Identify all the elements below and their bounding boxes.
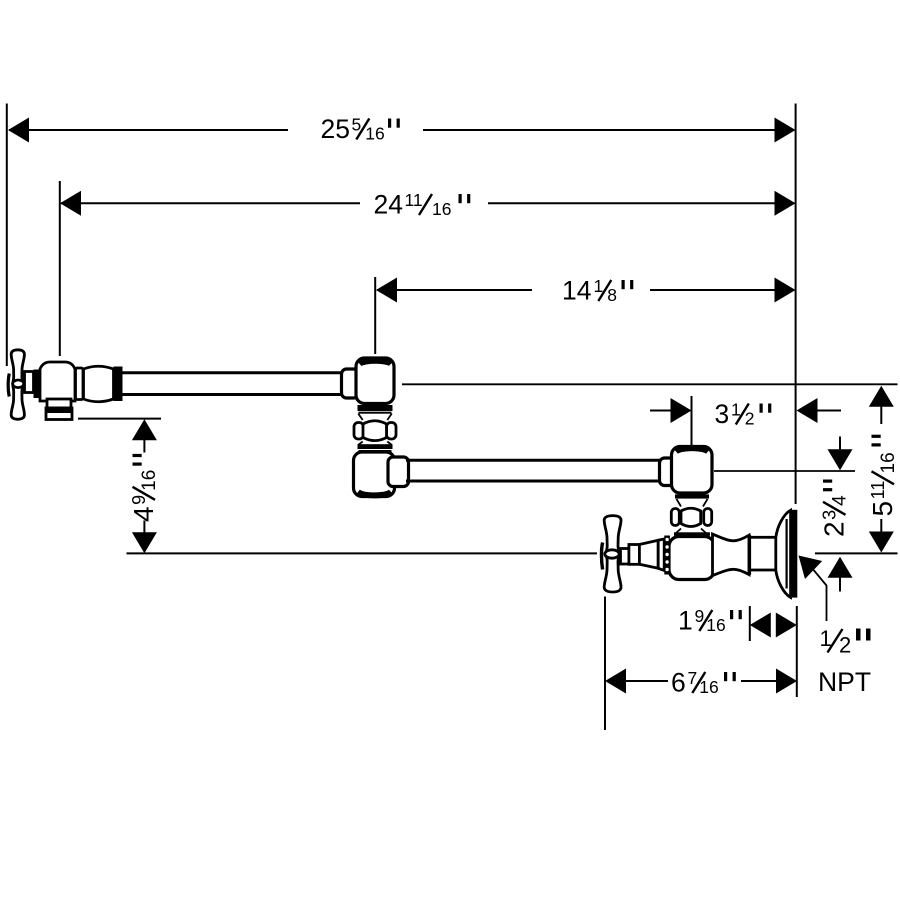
wall valve neck right — [713, 534, 750, 576]
wall flange plate — [791, 510, 797, 598]
D6 bottom arrow (points up) — [828, 557, 853, 578]
spout handle left arm edge — [8, 374, 9, 397]
D6 text 2-3/4" rotated — [819, 480, 851, 538]
spout bonnet bar (dark) — [34, 370, 40, 399]
dimension D1 right arrow — [775, 118, 796, 143]
middle joint hex nut left tab — [354, 423, 364, 440]
svg-text:1: 1 — [678, 606, 693, 636]
spout valve body — [40, 362, 75, 401]
svg-text:9: 9 — [695, 606, 705, 626]
right joint hex nut centre — [681, 508, 701, 526]
svg-text:16: 16 — [432, 199, 451, 219]
svg-text:5: 5 — [867, 501, 898, 517]
right joint ring band — [675, 494, 709, 498]
spout black collar band — [114, 367, 123, 402]
upper arm centre leader line — [402, 383, 898, 385]
D8 left arrow — [750, 613, 771, 638]
middle joint lower elbow — [354, 452, 395, 497]
D4 right arrow (points left) — [797, 398, 818, 423]
dimension D3 14-1/8 line — [377, 289, 532, 291]
outlet centre leader line right (5-11/16 bottom extent) — [815, 552, 898, 554]
wall flange bell inner rim line — [785, 519, 787, 589]
lower arm pipe top edge — [406, 459, 662, 462]
dimension D4 3-1/2 — [650, 396, 841, 446]
dimension D2 text 24-11/16" — [374, 190, 471, 220]
D4 left extent line — [691, 396, 693, 446]
middle joint hex nut right tab — [387, 423, 397, 440]
svg-text:NPT: NPT — [818, 667, 871, 697]
svg-text:6: 6 — [671, 668, 686, 698]
svg-text:4: 4 — [128, 506, 159, 522]
D9 right arrow — [776, 669, 797, 694]
D7 text 4-9/16" rotated — [128, 454, 160, 522]
D5 bottom arrow (down) — [869, 532, 894, 553]
dimension D1 25-5/16 line — [9, 129, 288, 131]
D9 left arrow — [605, 669, 626, 694]
NPT text 1/2" — [820, 626, 871, 658]
dimension D3 left arrow — [376, 278, 397, 303]
svg-text:16: 16 — [878, 452, 899, 473]
extension line third (14-1/8 left extent) — [374, 277, 376, 354]
middle joint lower elbow dark bottom — [358, 492, 391, 495]
svg-text:16: 16 — [139, 470, 160, 491]
svg-text:7: 7 — [688, 668, 698, 688]
outlet centre leader line left (4-9/16 bottom extent) — [127, 552, 598, 554]
dimension D3 right arrow — [775, 278, 796, 303]
lower arm pipe bottom edge — [406, 480, 662, 483]
wall valve cylinder — [750, 537, 777, 570]
dimension D2 right arrow — [775, 191, 796, 216]
dimension D5 5-11/16 vertical — [867, 386, 899, 553]
right joint hex nut right tab — [704, 509, 712, 526]
spout handle stem — [25, 372, 34, 393]
NPT leader line — [814, 570, 827, 621]
middle joint upper elbow dark top — [360, 361, 392, 364]
extension line left (25-5/16 left extent) — [6, 104, 8, 367]
spout outlet bottom extent line (4-9/16 top extent) — [78, 418, 161, 420]
dimension D1 text 25-5/16" — [321, 114, 400, 144]
D5 text 5-11/16" rotated — [867, 435, 899, 517]
D8 right extent line — [796, 606, 798, 697]
svg-text:9: 9 — [129, 495, 149, 505]
middle joint upper ring band — [358, 405, 393, 411]
upper arm pipe top edge — [121, 371, 344, 374]
spout outlet dark band — [46, 409, 72, 414]
svg-text:16: 16 — [365, 124, 384, 144]
wall valve cylinder left bar — [748, 535, 751, 575]
wall flange bell — [776, 510, 791, 597]
svg-text:11: 11 — [405, 190, 423, 210]
D8 left extent line — [749, 606, 751, 641]
svg-text:1: 1 — [731, 400, 741, 420]
spout outlet lower — [46, 408, 72, 420]
middle joint lower ring thin line — [359, 450, 392, 452]
svg-text:3: 3 — [715, 399, 730, 429]
lower arm centre leader line — [714, 470, 855, 472]
middle joint upper elbow — [356, 358, 394, 404]
svg-text:25: 25 — [321, 114, 350, 144]
wall valve bonnet cone 1 — [639, 540, 658, 568]
dimension D3 text 14-1/8" — [562, 276, 633, 306]
svg-text:1: 1 — [594, 276, 604, 296]
extension line second (24-11/16 left extent) — [59, 181, 61, 356]
spout handle hub oval — [13, 380, 24, 388]
spout right ring — [76, 368, 84, 400]
svg-text:2: 2 — [745, 409, 755, 429]
svg-text:2: 2 — [839, 633, 851, 658]
dimension D8 1-9/16 — [678, 606, 797, 698]
middle joint inlet collar — [342, 369, 359, 398]
wall extension line (right extent of top dims) — [795, 104, 797, 505]
NPT leader arrow — [799, 556, 823, 580]
svg-text:8: 8 — [607, 285, 617, 305]
middle joint lower ring band — [358, 444, 393, 449]
D9 left extent line — [604, 597, 606, 731]
dimension D6 2-3/4 vertical — [819, 437, 853, 592]
middle joint outlet collar — [388, 457, 409, 487]
right joint neck taper lines — [676, 499, 708, 533]
dimension D7 4-9/16 vertical — [128, 419, 160, 553]
wall valve stem — [621, 549, 631, 565]
wall handle cross bone — [604, 516, 621, 592]
svg-text:24: 24 — [374, 190, 403, 220]
wall valve body — [669, 537, 715, 580]
right joint elbow dark top — [676, 448, 708, 451]
svg-text:16: 16 — [699, 677, 718, 697]
dimension D2 left arrow — [60, 191, 81, 216]
spout outlet upper — [47, 399, 71, 408]
right joint elbow — [672, 447, 713, 494]
middle joint hex nut centre — [363, 421, 387, 441]
svg-text:11: 11 — [868, 481, 888, 500]
wall handle hub oval — [605, 550, 619, 558]
wall valve bonnet cone 2 — [658, 539, 664, 571]
D8 right arrow — [776, 613, 797, 638]
svg-text:16: 16 — [706, 615, 725, 635]
svg-text:4: 4 — [830, 495, 851, 506]
D5 top arrow (up) — [869, 386, 894, 407]
wall valve stem block — [629, 545, 640, 565]
dimension D2 24-11/16 line — [61, 202, 360, 204]
svg-text:14: 14 — [562, 276, 591, 306]
svg-text:5: 5 — [352, 115, 362, 135]
right joint lower ring band — [674, 532, 710, 536]
upper arm pipe bottom edge — [121, 393, 344, 396]
spout barrel union — [84, 366, 114, 402]
wall handle left arm edge — [601, 543, 602, 570]
dimension D1 left arrow — [8, 118, 29, 143]
spout cross handle bone — [11, 350, 24, 420]
svg-text:2: 2 — [819, 521, 850, 537]
svg-text:3: 3 — [820, 510, 840, 520]
D6 top arrow (points down) — [828, 449, 853, 470]
right joint hex nut left tab — [671, 509, 679, 526]
wall valve knurled bead — [664, 536, 670, 575]
right joint inlet collar — [660, 458, 677, 486]
D4 left arrow (points right) — [671, 398, 692, 423]
middle joint upper ring thin line — [359, 412, 392, 414]
D7 bottom arrow (down) — [132, 532, 157, 553]
D7 top arrow (up) — [132, 419, 157, 440]
dimension D9 6-7/16 — [605, 597, 797, 731]
middle joint neck taper lines — [358, 414, 392, 446]
